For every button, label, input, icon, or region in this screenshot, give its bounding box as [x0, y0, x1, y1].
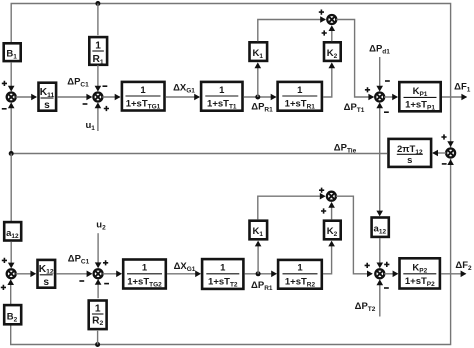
summing junction ACE1: [7, 93, 16, 102]
sign + (u2 into dPC2 summer): [103, 260, 108, 265]
svg-text:1: 1: [95, 40, 101, 51]
sign + (B2 into ACE2 summer): [1, 285, 6, 290]
wire: u1 into dPC1 summer: [95, 102, 102, 131]
label dX_G1 (area1): [173, 83, 195, 95]
block a12 (left, ACE2): [4, 222, 21, 240]
sign + (turbine power into dPT1 summer): [365, 87, 370, 92]
svg-text:1: 1: [219, 85, 225, 96]
summing junction dPC1 (governor input, area1): [93, 93, 102, 102]
sign - (K11/s into dPC1 summer): [83, 103, 88, 105]
node: tap to 1/R2 on bottom line: [95, 342, 100, 347]
sign + (a12 into ACE2 summer): [2, 258, 7, 263]
block K2 (area1): [324, 42, 341, 61]
sign - (dF2 into tie summer): [442, 163, 447, 165]
sign + (K2 into reheat summer 1): [322, 30, 327, 35]
block tie line 2piT12/s: [389, 139, 432, 167]
wire: dPT2 summer to KP2: [384, 271, 398, 278]
wire: turbine2 to reheat2: [245, 271, 277, 278]
label dP_R1 (area1): [251, 101, 273, 113]
wire: 1/R2 up into dPC2 summer: [95, 279, 102, 298]
wire: governor2 to turbine2 (dX_G1): [167, 271, 201, 278]
wire: bottom line up to 1/R2: [97, 331, 99, 345]
wire: a12 right into dPT2 summer: [377, 238, 384, 268]
wire: K2 up into reheat summer 2: [328, 202, 335, 220]
sign + (B1 into ACE1 summer): [2, 81, 7, 86]
wire: K1 to reheat summer (area1): [258, 16, 326, 41]
wire: turbine1 to reheat1: [244, 94, 277, 101]
sign - (dPd1 into dPT1 summer): [385, 80, 390, 82]
summing junction dPT2 (area2 power balance): [375, 269, 384, 278]
wire: tie line up into ACE1 summer: [8, 102, 15, 153]
wire: B1 to ACE1 summer: [8, 62, 15, 91]
svg-text:1: 1: [140, 85, 146, 96]
summing junction dPC2 (governor input, area2): [94, 269, 103, 278]
sign + (dF1 into tie summer): [441, 134, 446, 139]
wire: reheater1 to K2 (area1): [323, 62, 335, 97]
label dPd1: [369, 44, 390, 56]
block 1/R1 (droop area1): [89, 37, 107, 66]
summing junction reheat2 (K1+K2): [327, 192, 336, 201]
svg-text:s: s: [407, 155, 412, 166]
block K11/s (integral controller 1): [39, 83, 57, 111]
block K2 (area2): [324, 221, 341, 240]
wire: bottom feedback line (dF2 to B2 / 1/R2): [11, 159, 451, 345]
wire: dF1 down into tie summer: [447, 141, 454, 147]
wire: reheat summer 2 to dPT2 summer: [336, 196, 373, 277]
label dPC1 (area1): [67, 76, 89, 88]
block turbine 1/(1+sT_T1): [201, 82, 242, 111]
wire: tie summer to 2piT12/s block: [432, 150, 446, 157]
label u1: [85, 120, 95, 132]
block power system 2 KP2/(1+sTP2): [400, 258, 440, 288]
node dP_R1 (area2): [256, 271, 261, 276]
sign - (tie into dPT1 summer): [384, 111, 389, 113]
label dP_Tie: [334, 142, 357, 154]
wire: K2 up into reheat summer 1: [329, 25, 336, 41]
sign - (K12/s into dPC2 summer): [79, 280, 84, 282]
svg-text:1: 1: [142, 263, 148, 274]
sign - (1/R1 into dPC1 summer): [103, 85, 108, 87]
wire: dF1 output line: [442, 94, 467, 101]
wire: K1 to reheat summer (area2): [258, 193, 326, 220]
svg-text:1: 1: [95, 304, 101, 315]
sign - (tie into ACE1 summer): [2, 108, 7, 110]
summing junction reheat1 (K1+K2): [327, 15, 336, 24]
sign - (dPT2 into summer): [384, 287, 389, 289]
wire: reheat summer 1 to dPT1 summer: [336, 20, 374, 101]
sign + (K1 into reheat summer 2): [319, 188, 324, 193]
wire: tie feedback up into dPT1 summer and down to a12: [376, 102, 383, 216]
svg-text:1: 1: [220, 263, 226, 274]
wire: tie line dP_Tie to left: [11, 153, 387, 155]
node: tap to 1/R1 on top line: [95, 1, 100, 6]
label dPC1 (area2): [68, 254, 90, 266]
sign + (turbine power into dPT2 summer): [365, 263, 370, 268]
wire: dF2 output line: [441, 271, 466, 278]
sign + (K1 into reheat summer 1): [319, 10, 324, 15]
svg-text:s: s: [43, 277, 49, 288]
block power system 1 KP1/(1+sTP1): [399, 82, 440, 111]
svg-text:1: 1: [297, 85, 303, 96]
wire: dPd1 load disturbance input: [376, 57, 383, 92]
label dF2: [455, 260, 472, 272]
block governor 1/(1+sT_TG2): [123, 260, 166, 289]
block turbine 1/(1+sT_T2): [202, 259, 243, 289]
svg-text:s: s: [44, 100, 50, 111]
wire: ACE2 summer to K12/s: [16, 271, 37, 278]
wire: top line to 1/R1: [97, 4, 99, 36]
wire: dP_R1 up to K1 (area1): [255, 62, 262, 97]
label dF1: [454, 82, 471, 94]
summing junction dPT1 (area1 power balance): [375, 93, 384, 102]
sign - (1/R2 into dPC2 summer): [104, 283, 109, 285]
block K1 (area1): [250, 42, 268, 61]
wire: top feedback line (dF1 to B1 / 1/R1): [11, 4, 450, 149]
label dP_R1 (area2): [251, 280, 273, 292]
label dX_G1 (area2): [174, 261, 196, 273]
block reheater 1/(1+sT_R1): [278, 82, 322, 111]
wire: u2 into dPC2 summer: [95, 233, 102, 268]
label dP_T2: [355, 301, 376, 313]
svg-text:1: 1: [297, 263, 303, 274]
wire: ACE1 summer to K11/s: [16, 94, 37, 101]
node: tie line to left vertical: [9, 151, 14, 156]
wire: 1/R1 into dPC1 summer: [95, 65, 102, 91]
wire: dPT2 load input from below: [377, 279, 384, 316]
node dP_R1 (area1): [255, 95, 260, 100]
sign + (u1 into dPC1 summer): [104, 106, 109, 111]
wire: governor1 to turbine1 (dX_G1): [166, 94, 201, 101]
wire: K12/s to dPC2 summer: [56, 271, 92, 278]
summing junction tie (dF1-dF2): [446, 149, 455, 158]
block 1/R2 (droop area2): [89, 301, 107, 330]
label dP_T1: [344, 102, 365, 114]
wire: dPT1 summer to KP1: [384, 94, 398, 101]
wire: dPC2 summer to governor 2: [103, 271, 123, 278]
wire: reheater2 to K2 (area2): [323, 241, 335, 274]
block B2: [4, 305, 21, 324]
wire: dP_R1 up to K1 (area2): [255, 241, 262, 274]
block reheater 1/(1+sT_R2): [278, 260, 322, 289]
sign + (K2 into reheat summer 2): [321, 208, 326, 213]
block B1: [4, 43, 21, 61]
wire: B2 up into ACE2 summer: [7, 279, 14, 304]
wire: K11/s to dPC1 summer: [57, 94, 92, 101]
block K12/s (integral controller 2): [38, 260, 56, 288]
label u2: [96, 220, 106, 232]
block governor 1/(1+sT_TG1): [122, 82, 165, 111]
block a12 (right, tie to area2): [372, 218, 389, 237]
wire: dPC1 summer to governor 1: [102, 94, 120, 101]
wire: a12 left into ACE2 summer: [8, 242, 15, 269]
wire: dF2 up into tie summer: [447, 159, 454, 165]
wire: tie line down to a12 left: [10, 154, 12, 222]
sign + (a12 into dPT2 summer): [384, 262, 389, 267]
block K1 (area2): [250, 221, 268, 240]
summing junction ACE2: [7, 269, 16, 278]
